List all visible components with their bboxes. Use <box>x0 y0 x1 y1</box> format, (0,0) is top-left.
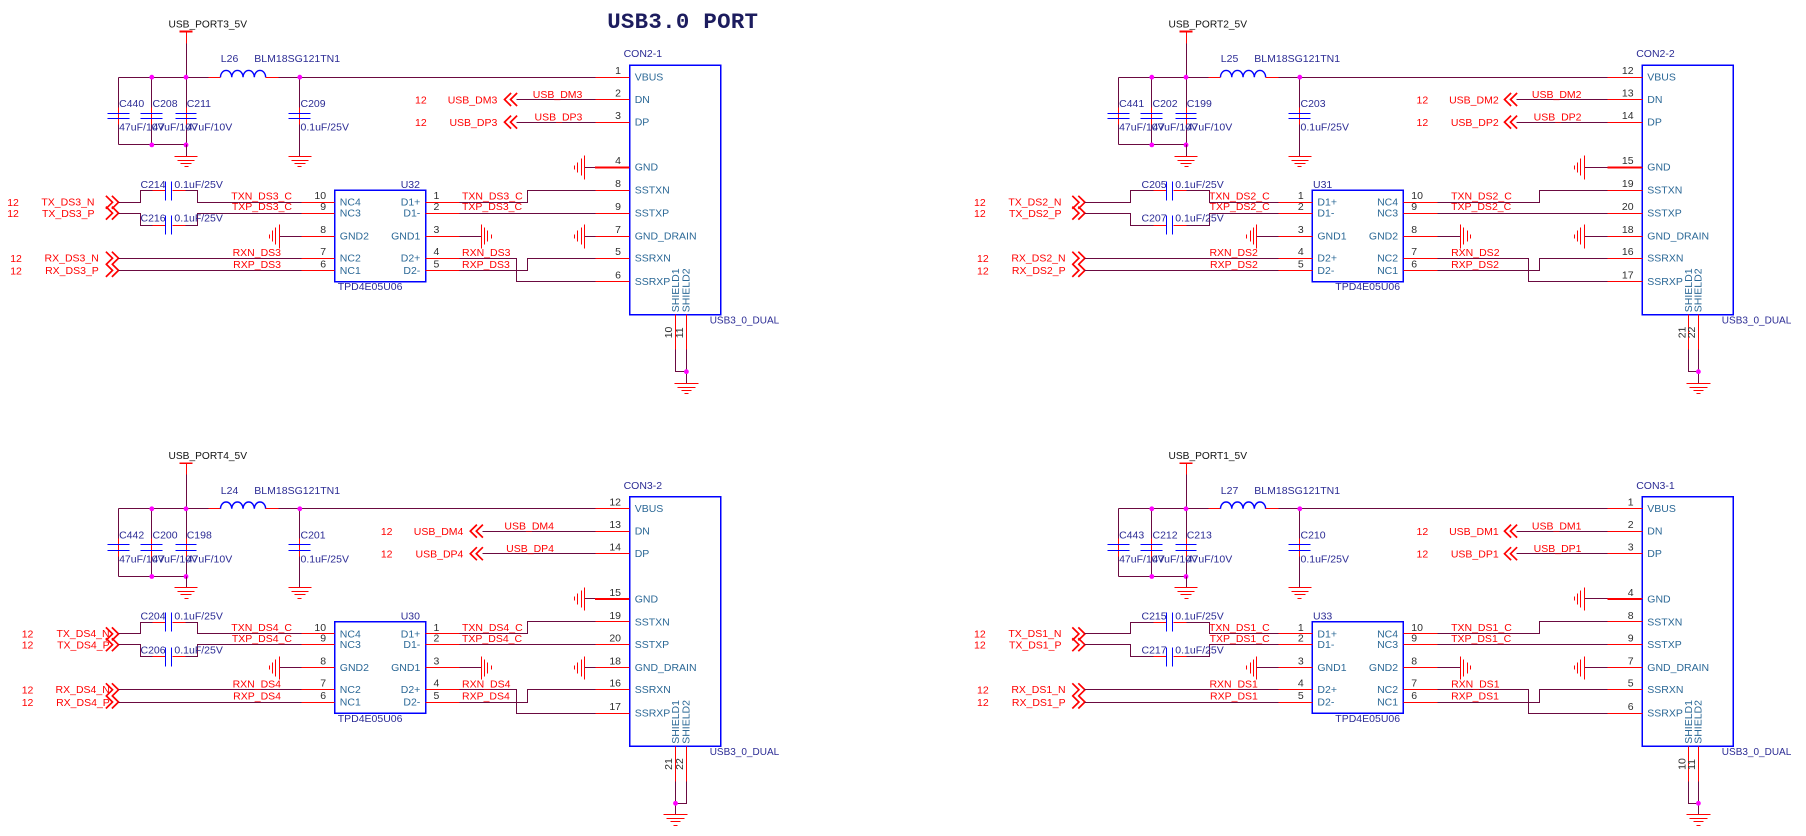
power symbol USB_PORT1_5V <box>1169 451 1248 475</box>
svg-text:15: 15 <box>609 587 621 599</box>
svg-text:D2-: D2- <box>1317 696 1334 708</box>
svg-text:12: 12 <box>22 640 34 652</box>
wire VBUS rail <box>1119 77 1608 79</box>
wire C columns <box>119 509 300 577</box>
pin 6 NC1 <box>302 258 361 277</box>
svg-text:SSTXP: SSTXP <box>635 639 669 651</box>
ground at connector GND_DRAIN <box>575 225 596 249</box>
wire VBUS rail <box>119 77 596 79</box>
pin 3 GND1 <box>1279 224 1347 243</box>
svg-text:TPD4E05U06: TPD4E05U06 <box>338 713 403 725</box>
wire capacitor ground rail <box>1119 144 1187 146</box>
svg-text:D2+: D2+ <box>1317 253 1337 265</box>
svg-text:TX_DS4_P: TX_DS4_P <box>57 640 110 652</box>
pin 8 GND2 <box>302 656 370 675</box>
svg-text:C212: C212 <box>1153 530 1178 542</box>
svg-text:7: 7 <box>615 224 621 236</box>
wire RX_DS4_P <box>119 702 302 704</box>
svg-text:D2+: D2+ <box>401 684 421 696</box>
svg-text:C205: C205 <box>1142 179 1167 191</box>
svg-text:SSTXN: SSTXN <box>1647 185 1682 197</box>
svg-text:VBUS: VBUS <box>635 503 664 515</box>
pin 21 SHIELD1 <box>663 700 682 782</box>
svg-text:0.1uF/25V: 0.1uF/25V <box>1175 611 1223 623</box>
svg-text:USB3_0_DUAL: USB3_0_DUAL <box>1722 747 1792 758</box>
svg-text:12: 12 <box>1417 94 1429 106</box>
svg-text:SSTXN: SSTXN <box>635 616 670 628</box>
power symbol USB_PORT4_5V <box>169 451 248 475</box>
pin 10 SHIELD1 <box>1676 700 1695 782</box>
svg-text:11: 11 <box>674 327 686 338</box>
svg-text:USB_DP3: USB_DP3 <box>449 117 497 129</box>
svg-text:BLM18SG121TN1: BLM18SG121TN1 <box>254 53 340 65</box>
pin 7 GND_DRAIN <box>1608 656 1710 675</box>
svg-text:12: 12 <box>1417 117 1429 129</box>
svg-text:5: 5 <box>1298 690 1304 702</box>
ESD protection IC U31 TPD4E05U06 <box>1279 179 1438 293</box>
svg-text:U32: U32 <box>401 179 420 191</box>
svg-text:0.1uF/25V: 0.1uF/25V <box>301 122 349 134</box>
svg-text:22: 22 <box>674 758 686 770</box>
pin 22 SHIELD2 <box>674 700 693 782</box>
wire TX_DS3_N to C214 <box>119 191 153 203</box>
svg-text:4: 4 <box>1298 678 1304 690</box>
inductor L26 BLM18SG121TN1 <box>209 53 341 77</box>
ground below bulk caps <box>175 577 198 599</box>
svg-text:USB_DP1: USB_DP1 <box>1534 543 1582 555</box>
pin 11 SHIELD2 <box>1686 700 1705 782</box>
svg-text:RXP_DS1: RXP_DS1 <box>1451 691 1499 703</box>
ESD protection IC U30 TPD4E05U06 <box>302 610 460 724</box>
pin 9 NC3 <box>1377 201 1437 220</box>
svg-text:CON2-2: CON2-2 <box>1636 48 1675 60</box>
wire RX_DS3_N <box>119 258 302 260</box>
svg-text:USB_DP3: USB_DP3 <box>535 111 583 123</box>
wire RX_DS1_P <box>1085 702 1279 704</box>
svg-text:18: 18 <box>609 656 621 668</box>
ground at U32 GND2 <box>270 225 302 249</box>
wire shield to ground <box>676 782 687 815</box>
port TX_DS2_N <box>974 196 1085 209</box>
ground shield <box>664 814 688 816</box>
wire power stem <box>1186 475 1188 509</box>
capacitor C443 <box>1108 530 1165 566</box>
port USB_DP2 <box>1417 116 1518 129</box>
pin 5 D2- <box>403 258 459 277</box>
svg-text:NC2: NC2 <box>340 253 361 265</box>
svg-text:6: 6 <box>1628 701 1634 713</box>
svg-text:13: 13 <box>609 519 621 531</box>
wire capacitor ground rail <box>119 576 187 578</box>
svg-text:SSRXP: SSRXP <box>635 707 671 719</box>
svg-text:NC2: NC2 <box>1377 253 1398 265</box>
svg-text:U31: U31 <box>1313 179 1332 191</box>
ground at U31 GND2 <box>1438 225 1471 249</box>
ground at U31 GND1 <box>1247 225 1279 249</box>
wire power stem <box>186 44 188 78</box>
svg-text:47uF/10V: 47uF/10V <box>187 553 233 565</box>
svg-text:D2+: D2+ <box>1317 684 1337 696</box>
wire C214 to U pin <box>186 191 302 203</box>
pin 16 SSRXN <box>596 678 671 697</box>
wire TXP_DS2_C to SSTXP <box>1438 213 1608 215</box>
svg-text:GND_DRAIN: GND_DRAIN <box>635 662 697 674</box>
port RX_DS2_P <box>977 264 1085 278</box>
svg-text:GND: GND <box>1647 162 1671 174</box>
pin 3 GND1 <box>1279 656 1347 675</box>
svg-text:C201: C201 <box>301 530 326 542</box>
svg-text:2: 2 <box>1298 633 1304 645</box>
wire TX_DS4_N to C204 <box>119 623 153 634</box>
wire C columns <box>1119 509 1300 577</box>
ground at connector GND_DRAIN <box>1575 657 1608 680</box>
port USB_DM4 <box>381 525 483 538</box>
svg-text:12: 12 <box>977 697 989 709</box>
svg-text:TX_DS4_N: TX_DS4_N <box>56 628 109 640</box>
pin 1 VBUS <box>596 65 664 84</box>
svg-text:1: 1 <box>1628 497 1634 509</box>
pin 9 NC3 <box>302 201 361 220</box>
svg-text:TXP_DS3_C: TXP_DS3_C <box>232 201 293 213</box>
svg-text:6: 6 <box>615 269 621 281</box>
svg-text:SSTXP: SSTXP <box>1647 208 1681 220</box>
svg-text:USB3_0_DUAL: USB3_0_DUAL <box>710 316 780 327</box>
svg-text:BLM18SG121TN1: BLM18SG121TN1 <box>1254 485 1340 497</box>
wire RXP_DS1 to SSRXN <box>1438 690 1608 703</box>
svg-text:TXP_DS4_C: TXP_DS4_C <box>232 633 293 645</box>
pin 2 D1- <box>1279 633 1335 652</box>
svg-text:D2+: D2+ <box>401 253 421 265</box>
wire C207 to U pin <box>1187 214 1279 226</box>
svg-text:8: 8 <box>1628 610 1634 622</box>
pin 1 D1+ <box>401 622 460 641</box>
svg-text:NC3: NC3 <box>1377 639 1398 651</box>
svg-text:6: 6 <box>320 690 326 702</box>
svg-text:47uF/10V: 47uF/10V <box>187 122 233 134</box>
svg-text:GND1: GND1 <box>1317 662 1346 674</box>
svg-text:C213: C213 <box>1187 530 1212 542</box>
wire C204 to U pin <box>186 623 302 634</box>
pin 22 SHIELD2 <box>1686 268 1705 349</box>
svg-text:GND2: GND2 <box>340 662 369 674</box>
svg-text:2: 2 <box>1628 519 1634 531</box>
pin 3 DP <box>596 110 650 129</box>
wire RXN_DS1 to SSRXP <box>1438 690 1608 714</box>
svg-text:SSRXN: SSRXN <box>1647 684 1683 696</box>
ground below bulk caps <box>175 145 198 167</box>
svg-text:C217: C217 <box>1142 644 1167 656</box>
svg-text:9: 9 <box>1411 201 1417 213</box>
svg-text:5: 5 <box>434 258 440 270</box>
junction dots VBUS rail <box>149 75 302 148</box>
svg-text:0.1uF/25V: 0.1uF/25V <box>301 553 349 565</box>
capacitor C442 <box>108 530 165 566</box>
svg-text:USB_DP4: USB_DP4 <box>416 549 464 561</box>
svg-text:USB_DM2: USB_DM2 <box>1532 89 1582 101</box>
capacitor C199 <box>1176 98 1233 134</box>
svg-text:TX_DS1_N: TX_DS1_N <box>1008 628 1061 640</box>
pin 5 D2- <box>403 690 459 709</box>
wire RX_DS1_N <box>1085 689 1279 691</box>
wire TXN_DS3_C to SSTXN <box>460 191 596 203</box>
svg-text:SSRXP: SSRXP <box>635 276 671 288</box>
power symbol USB_PORT3_5V <box>169 19 248 43</box>
wire C217 to U pin <box>1187 645 1279 657</box>
port USB_DP3 <box>415 116 517 129</box>
pin 15 GND <box>596 587 659 606</box>
port RX_DS3_P <box>10 264 118 278</box>
svg-text:12: 12 <box>1417 526 1429 538</box>
svg-text:11: 11 <box>1686 759 1698 770</box>
pin 1 VBUS <box>1608 497 1676 516</box>
svg-text:USB3_0_DUAL: USB3_0_DUAL <box>710 747 780 758</box>
port TX_DS3_N <box>7 196 118 209</box>
capacitor C212 <box>1141 530 1199 566</box>
svg-text:14: 14 <box>1622 110 1634 122</box>
svg-text:2: 2 <box>434 633 440 645</box>
pin 9 NC3 <box>302 633 361 652</box>
svg-text:GND: GND <box>1647 593 1671 605</box>
pin 2 D1- <box>403 633 459 652</box>
svg-text:TXP_DS1_C: TXP_DS1_C <box>1451 633 1512 645</box>
capacitor C211 <box>176 98 233 134</box>
port TX_DS4_P <box>22 638 119 652</box>
svg-text:C215: C215 <box>1142 611 1167 623</box>
svg-text:4: 4 <box>434 246 440 258</box>
svg-text:6: 6 <box>1411 258 1417 270</box>
svg-text:RXN_DS2: RXN_DS2 <box>1451 247 1500 259</box>
svg-text:L25: L25 <box>1221 53 1239 65</box>
svg-text:4: 4 <box>615 155 621 167</box>
wire RX_DS2_P <box>1085 270 1279 272</box>
pin 3 DP <box>1608 542 1662 561</box>
svg-text:VBUS: VBUS <box>1647 72 1676 84</box>
svg-text:L27: L27 <box>1221 485 1239 497</box>
pin 15 GND <box>1608 155 1672 174</box>
svg-text:19: 19 <box>1622 178 1634 190</box>
wire VBUS rail <box>119 508 596 510</box>
svg-text:USB_DM2: USB_DM2 <box>1449 94 1499 106</box>
svg-text:USB_DM3: USB_DM3 <box>533 89 583 101</box>
svg-text:RXN_DS4: RXN_DS4 <box>462 679 511 691</box>
pin 8 GND2 <box>1369 656 1438 675</box>
pin 1 D1+ <box>1279 190 1337 209</box>
svg-text:C200: C200 <box>153 530 178 542</box>
svg-text:6: 6 <box>320 258 326 270</box>
svg-text:47uF/10V: 47uF/10V <box>1187 553 1233 565</box>
svg-text:12: 12 <box>7 208 19 220</box>
pin 19 SSTXN <box>1608 178 1683 197</box>
capacitor C202 <box>1141 98 1199 134</box>
svg-text:C442: C442 <box>119 530 144 542</box>
wire VBUS rail <box>1119 508 1608 510</box>
svg-text:TX_DS3_P: TX_DS3_P <box>42 208 95 220</box>
svg-text:14: 14 <box>609 542 621 554</box>
capacitor C217 <box>1142 644 1224 666</box>
pin 8 SSTXN <box>1608 610 1683 629</box>
svg-text:NC1: NC1 <box>1377 265 1398 277</box>
svg-text:USB3.0 PORT: USB3.0 PORT <box>607 9 758 35</box>
pin 4 GND <box>596 155 659 174</box>
wire RXP_DS4 to SSRXN <box>460 690 596 703</box>
capacitor C206 <box>141 644 223 666</box>
svg-text:C202: C202 <box>1153 98 1178 110</box>
svg-text:TPD4E05U06: TPD4E05U06 <box>1335 713 1400 725</box>
svg-text:D1-: D1- <box>1317 639 1334 651</box>
svg-text:USB_DM4: USB_DM4 <box>414 526 464 538</box>
svg-text:8: 8 <box>320 224 326 236</box>
svg-text:SSRXN: SSRXN <box>635 253 671 265</box>
wire C215 to U pin <box>1187 623 1279 634</box>
svg-text:5: 5 <box>615 246 621 258</box>
ESD protection IC U33 TPD4E05U06 <box>1279 610 1438 724</box>
svg-text:GND2: GND2 <box>1369 662 1398 674</box>
svg-text:DP: DP <box>1647 117 1662 129</box>
svg-text:USB_DP2: USB_DP2 <box>1534 111 1582 123</box>
pin 4 GND <box>1608 587 1672 606</box>
svg-text:RXN_DS3: RXN_DS3 <box>233 247 282 259</box>
svg-text:C198: C198 <box>187 530 212 542</box>
wire RXP_DS3 to SSRXN <box>460 259 596 271</box>
pin 9 SSTXP <box>596 201 670 220</box>
svg-text:GND_DRAIN: GND_DRAIN <box>635 231 697 243</box>
pin 1 D1+ <box>401 190 460 209</box>
svg-text:C208: C208 <box>153 98 178 110</box>
wire power stem <box>1186 44 1188 78</box>
pin 6 NC1 <box>302 690 361 709</box>
power symbol USB_PORT2_5V <box>1169 19 1248 43</box>
inductor L25 BLM18SG121TN1 <box>1209 53 1341 77</box>
port USB_DM2 <box>1417 93 1518 106</box>
port USB_DM3 <box>415 93 517 106</box>
wire C206 to U pin <box>186 645 302 657</box>
svg-text:C440: C440 <box>119 98 144 110</box>
svg-text:3: 3 <box>615 110 621 122</box>
svg-text:NC2: NC2 <box>340 684 361 696</box>
svg-text:RXN_DS2: RXN_DS2 <box>1209 247 1258 259</box>
svg-text:DN: DN <box>635 526 650 538</box>
pin 11 SHIELD2 <box>674 268 693 349</box>
svg-text:NC2: NC2 <box>1377 684 1398 696</box>
ground shield <box>1687 814 1711 816</box>
wire shield to ground <box>676 350 687 384</box>
pin 3 GND1 <box>391 656 459 675</box>
port TX_DS3_P <box>7 207 118 221</box>
svg-text:C441: C441 <box>1119 98 1144 110</box>
svg-text:NC3: NC3 <box>1377 208 1398 220</box>
junction shield <box>673 801 678 806</box>
ground at U33 GND2 <box>1438 657 1471 680</box>
pin 7 NC2 <box>1377 246 1437 265</box>
svg-text:USB_PORT4_5V: USB_PORT4_5V <box>169 451 248 462</box>
svg-text:GND_DRAIN: GND_DRAIN <box>1647 662 1709 674</box>
pin 4 D2+ <box>1279 678 1337 697</box>
svg-text:TX_DS1_P: TX_DS1_P <box>1009 640 1062 652</box>
svg-text:12: 12 <box>415 117 427 129</box>
svg-text:RXP_DS2: RXP_DS2 <box>1451 259 1499 271</box>
wire TX_DS1_N to C215 <box>1085 623 1154 634</box>
svg-text:GND2: GND2 <box>1369 231 1398 243</box>
svg-text:CON3-1: CON3-1 <box>1636 480 1675 492</box>
svg-text:3: 3 <box>1298 224 1304 236</box>
svg-text:12: 12 <box>381 549 393 561</box>
svg-text:12: 12 <box>415 94 427 106</box>
svg-text:USB_DP4: USB_DP4 <box>506 543 554 555</box>
pin 10 NC4 <box>302 622 361 641</box>
wire RXN_DS4 to SSRXP <box>460 690 596 714</box>
pin 4 D2+ <box>1279 246 1337 265</box>
port RX_DS2_N <box>977 252 1085 265</box>
svg-text:3: 3 <box>434 224 440 236</box>
pin 5 D2- <box>1279 258 1335 277</box>
svg-text:RXP_DS4: RXP_DS4 <box>233 691 281 703</box>
svg-text:RX_DS3_N: RX_DS3_N <box>45 252 99 264</box>
svg-text:USB_PORT1_5V: USB_PORT1_5V <box>1169 451 1248 462</box>
capacitor C214 <box>141 179 223 201</box>
wire RXN_DS3 to SSRXP <box>460 259 596 282</box>
svg-text:6: 6 <box>1411 690 1417 702</box>
capacitor C207 <box>1142 213 1224 235</box>
svg-text:USB_DM3: USB_DM3 <box>448 94 498 106</box>
svg-text:C204: C204 <box>141 611 166 623</box>
capacitor C205 <box>1142 179 1224 201</box>
wire TXN_DS1_C to SSTXN <box>1438 622 1608 634</box>
port TX_DS2_P <box>974 207 1085 221</box>
ground at U30 GND1 <box>460 657 492 680</box>
capacitor C203 <box>1289 98 1349 134</box>
svg-text:C199: C199 <box>1187 98 1212 110</box>
svg-text:7: 7 <box>1411 678 1417 690</box>
svg-text:17: 17 <box>1622 269 1634 281</box>
wire USB_DM2 <box>1517 99 1608 101</box>
svg-text:D1-: D1- <box>403 639 420 651</box>
port USB_DP4 <box>381 547 483 560</box>
connector CON3-2 USB3_0_DUAL <box>624 480 780 758</box>
svg-text:0.1uF/25V: 0.1uF/25V <box>1301 122 1349 134</box>
ground below filter cap <box>289 125 312 167</box>
svg-text:9: 9 <box>1411 633 1417 645</box>
pin 2 D1- <box>1279 201 1335 220</box>
ESD protection IC U32 TPD4E05U06 <box>302 179 460 293</box>
connector CON2-1 USB3_0_DUAL <box>624 48 780 326</box>
svg-text:0.1uF/25V: 0.1uF/25V <box>174 611 222 623</box>
pin 7 NC2 <box>302 246 361 265</box>
wire C columns <box>1119 78 1300 145</box>
svg-text:VBUS: VBUS <box>1647 503 1676 515</box>
svg-text:0.1uF/25V: 0.1uF/25V <box>1175 179 1223 191</box>
svg-text:USB_DM1: USB_DM1 <box>1532 520 1582 532</box>
svg-text:RXP_DS4: RXP_DS4 <box>462 691 510 703</box>
svg-text:C207: C207 <box>1142 213 1167 225</box>
svg-text:RXP_DS1: RXP_DS1 <box>1210 691 1258 703</box>
port RX_DS4_N <box>22 683 119 696</box>
pin 17 SSRXP <box>1608 269 1683 288</box>
svg-text:3: 3 <box>1628 542 1634 554</box>
svg-text:D2-: D2- <box>1317 265 1334 277</box>
pin 13 DN <box>596 519 650 538</box>
junction shield <box>1696 369 1701 374</box>
svg-text:RXP_DS2: RXP_DS2 <box>1210 259 1258 271</box>
svg-text:0.1uF/25V: 0.1uF/25V <box>1175 213 1223 225</box>
wire USB_DP1 <box>1517 553 1608 555</box>
pin 9 SSTXP <box>1608 633 1682 652</box>
svg-text:RXP_DS3: RXP_DS3 <box>233 259 281 271</box>
svg-text:C210: C210 <box>1301 530 1326 542</box>
svg-text:TX_DS2_P: TX_DS2_P <box>1009 208 1062 220</box>
wire RXN_DS2 to SSRXP <box>1438 259 1608 282</box>
svg-text:12: 12 <box>1622 65 1634 77</box>
junction shield <box>1696 801 1701 806</box>
